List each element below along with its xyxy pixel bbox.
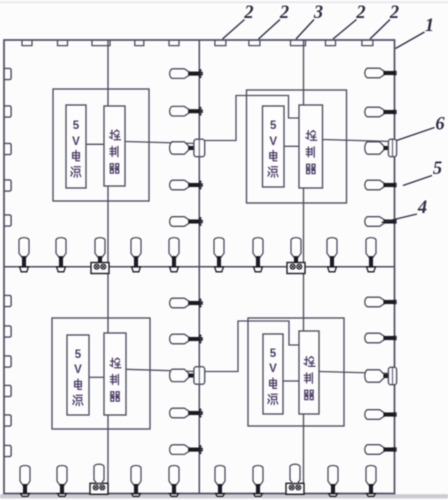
char zhi U4 lower-right bbox=[304, 373, 312, 383]
wire 5V to controller U4 lower-right bbox=[283, 380, 299, 382]
controller block U3 lower-left bbox=[104, 333, 126, 415]
svg-text:3: 3 bbox=[313, 3, 323, 23]
svg-text:4: 4 bbox=[417, 198, 427, 218]
scan artifact top gray line bbox=[0, 2, 448, 4]
char kong U3 lower-left bbox=[110, 358, 121, 368]
LED right edge upper #2 bbox=[365, 107, 395, 117]
char kong U2 upper-right bbox=[306, 131, 317, 141]
char qi U3 lower-left bbox=[110, 392, 119, 401]
panel edge notch top-right #3 bbox=[291, 40, 306, 46]
char qi U2 upper-right bbox=[306, 164, 315, 173]
LED bottom row right #1 bbox=[215, 466, 225, 497]
label 2 leader line bbox=[223, 20, 245, 40]
edge connector board right upper bbox=[388, 139, 396, 157]
solder pad right edge upper #1 bbox=[393, 71, 396, 75]
LED middle row right #4 bbox=[366, 238, 376, 272]
panel edge notch top-left #2 bbox=[58, 40, 68, 46]
char dian U3 lower-left bbox=[75, 379, 82, 389]
edge connector divider upper bbox=[194, 139, 205, 157]
wire vertical bus right column bbox=[303, 40, 305, 494]
LED divider upper #3 bbox=[170, 180, 203, 190]
LED divider lower #2 bbox=[170, 334, 203, 344]
label 1 leader line bbox=[396, 32, 425, 49]
edge connector divider lower bbox=[194, 367, 205, 385]
char yuan U2 upper-right bbox=[268, 167, 278, 177]
svg-text:5: 5 bbox=[270, 348, 277, 360]
LED right edge upper #4 bbox=[365, 217, 395, 227]
LED bottom row left #1 bbox=[20, 466, 30, 497]
svg-text:V: V bbox=[269, 136, 277, 148]
wire controller UR output to board edge bbox=[323, 140, 393, 142]
LED middle row left #3 bbox=[131, 238, 141, 272]
panel divider horizontal bbox=[4, 266, 395, 268]
castellation tab left edge upper #5 bbox=[4, 215, 11, 226]
castellation tab left edge lower #5 bbox=[4, 415, 11, 426]
label 5 leader line bbox=[403, 176, 432, 186]
svg-text:6: 6 bbox=[435, 115, 445, 135]
LED divider lower #1 bbox=[170, 298, 203, 308]
svg-text:2: 2 bbox=[243, 3, 253, 23]
LED right edge lower #4 bbox=[365, 445, 395, 455]
panel edge notch top-left #5 bbox=[169, 40, 179, 46]
svg-text:2: 2 bbox=[355, 3, 365, 23]
wire 5V to controller U1 upper-left bbox=[86, 143, 104, 145]
char yuan U1 upper-left bbox=[71, 167, 81, 177]
svg-text:5: 5 bbox=[270, 120, 277, 132]
label 4 leader line bbox=[382, 214, 418, 223]
5V power supply block U2 upper-right bbox=[263, 106, 285, 187]
LED divider upper #4 bbox=[170, 217, 203, 227]
char yuan U3 lower-left bbox=[73, 395, 83, 405]
char yuan U4 lower-right bbox=[268, 394, 278, 404]
LED divider lower #4 bbox=[170, 445, 203, 455]
LED bottom row right #3 bbox=[328, 466, 338, 497]
label 2 leader line bbox=[259, 20, 281, 40]
LED on bus connector middle left bbox=[95, 238, 105, 263]
LED right edge lower #1 bbox=[365, 297, 395, 307]
svg-text:5: 5 bbox=[75, 349, 82, 361]
panel edge notch top-left #3 bbox=[92, 40, 110, 46]
wire 5V to controller U3 lower-left bbox=[89, 376, 104, 378]
char zhi U2 upper-right bbox=[306, 147, 314, 157]
LED bottom row right #2 bbox=[253, 466, 263, 497]
label 2 leader line bbox=[333, 20, 357, 40]
label 3 leader line bbox=[296, 20, 314, 40]
char dian U4 lower-right bbox=[270, 378, 277, 388]
svg-text:V: V bbox=[72, 136, 80, 148]
solder pad right edge lower #3 bbox=[393, 412, 396, 416]
solder pad right edge lower #2 bbox=[393, 336, 396, 340]
LED divider upper output bbox=[170, 142, 200, 155]
solder pad right edge upper #2 bbox=[393, 110, 396, 114]
char zhi U1 upper-left bbox=[110, 146, 118, 156]
LED on bus connector bottom left bbox=[94, 464, 104, 484]
controller block U2 upper-right bbox=[299, 105, 323, 188]
board outline bbox=[4, 40, 395, 494]
panel edge notch top-right #2 bbox=[249, 40, 260, 46]
LED on bus connector bottom right bbox=[290, 464, 300, 484]
module box U1 upper-left bbox=[53, 89, 149, 201]
LED bottom row right #4 bbox=[366, 466, 376, 497]
LED right edge upper #1 bbox=[365, 68, 395, 78]
label 2 leader line bbox=[370, 20, 390, 40]
castellation tab left edge upper #4 bbox=[4, 180, 11, 191]
solder pad right edge upper #3 bbox=[393, 183, 396, 187]
LED divider lower output bbox=[170, 369, 200, 382]
controller block U1 upper-left bbox=[104, 106, 125, 186]
svg-text:5: 5 bbox=[73, 120, 80, 132]
LED divider upper #1 bbox=[170, 69, 203, 79]
solder pad right edge lower #1 bbox=[393, 300, 396, 304]
panel edge notch top-right #5 bbox=[362, 40, 373, 46]
LED bottom row left #2 bbox=[57, 466, 67, 497]
LED divider lower #3 bbox=[170, 408, 203, 418]
LED middle row left #1 bbox=[19, 238, 29, 272]
svg-text:5: 5 bbox=[433, 159, 442, 179]
LED middle row left #4 bbox=[169, 238, 179, 272]
char qi U1 upper-left bbox=[110, 164, 119, 173]
module box U3 lower-left bbox=[52, 318, 150, 429]
svg-text:1: 1 bbox=[425, 16, 434, 36]
edge connector board right lower bbox=[388, 367, 396, 385]
LED right edge lower #2 bbox=[365, 333, 395, 343]
castellation tab left edge upper #1 bbox=[4, 68, 11, 79]
bus connector J3 bottom left bbox=[90, 483, 108, 494]
castellation tab left edge lower #6 bbox=[4, 445, 11, 456]
bus connector J4 bottom right bbox=[286, 483, 304, 494]
LED right edge upper #3 bbox=[365, 180, 395, 190]
svg-text:V: V bbox=[74, 364, 82, 376]
LED bottom row left #4 bbox=[169, 466, 179, 497]
controller block U4 lower-right bbox=[299, 331, 319, 414]
solder pad right edge lower #4 bbox=[393, 447, 396, 451]
LED middle row right #2 bbox=[253, 238, 263, 272]
castellation tab left edge upper #2 bbox=[4, 106, 11, 117]
wire step from divider into LR controller bbox=[202, 321, 299, 372]
wire step from divider into UR controller bbox=[202, 96, 299, 141]
svg-text:2: 2 bbox=[279, 3, 289, 23]
wire 5V to controller U2 upper-right bbox=[284, 145, 299, 147]
LED middle row right #1 bbox=[214, 238, 224, 272]
wire controller LR output to board edge bbox=[319, 372, 392, 374]
LED right edge lower output bbox=[365, 370, 395, 383]
panel edge notch top-left #1 bbox=[22, 40, 32, 46]
char qi U4 lower-right bbox=[304, 390, 313, 399]
wire vertical bus left column bbox=[107, 40, 109, 494]
LED right edge lower #3 bbox=[365, 410, 395, 420]
svg-text:V: V bbox=[269, 363, 277, 375]
module box U2 upper-right bbox=[247, 90, 347, 203]
LED on bus connector middle right bbox=[291, 238, 301, 263]
panel edge notch top-right #4 bbox=[326, 40, 336, 46]
5V power supply block U3 lower-left bbox=[67, 335, 89, 415]
char kong U4 lower-right bbox=[304, 357, 315, 367]
castellation tab left edge lower #1 bbox=[4, 295, 11, 306]
panel edge notch top-right #1 bbox=[215, 40, 226, 46]
LED middle row left #2 bbox=[56, 238, 66, 272]
bus connector J2 middle right bbox=[287, 263, 305, 274]
wire controller UL output to panel divider bbox=[125, 142, 197, 144]
char dian U2 upper-right bbox=[270, 150, 277, 160]
module box U4 lower-right bbox=[248, 318, 344, 426]
LED middle row right #3 bbox=[327, 238, 337, 272]
5V power supply block U1 upper-left bbox=[66, 105, 86, 188]
char dian U1 upper-left bbox=[73, 150, 80, 160]
panel divider vertical bbox=[198, 40, 200, 494]
panel edge notch top-left #4 bbox=[135, 40, 144, 46]
wire controller LL output to panel divider bbox=[126, 369, 197, 371]
char zhi U3 lower-left bbox=[110, 374, 118, 384]
scan artifact bottom gray band bbox=[0, 494, 448, 498]
LED divider upper #2 bbox=[170, 106, 203, 116]
char kong U1 upper-left bbox=[110, 130, 121, 140]
castellation tab left edge lower #2 bbox=[4, 326, 11, 337]
solder pad right edge upper #4 bbox=[393, 219, 396, 223]
LED right edge upper output bbox=[365, 142, 395, 155]
castellation tab left edge lower #3 bbox=[4, 356, 11, 367]
castellation tab left edge lower #4 bbox=[4, 385, 11, 396]
LED bottom row left #3 bbox=[131, 466, 141, 497]
castellation tab left edge upper #3 bbox=[4, 143, 11, 154]
label 6 leader line bbox=[397, 128, 435, 141]
svg-text:2: 2 bbox=[389, 3, 399, 23]
5V power supply block U4 lower-right bbox=[263, 334, 283, 414]
bus connector J1 middle left bbox=[91, 263, 109, 274]
